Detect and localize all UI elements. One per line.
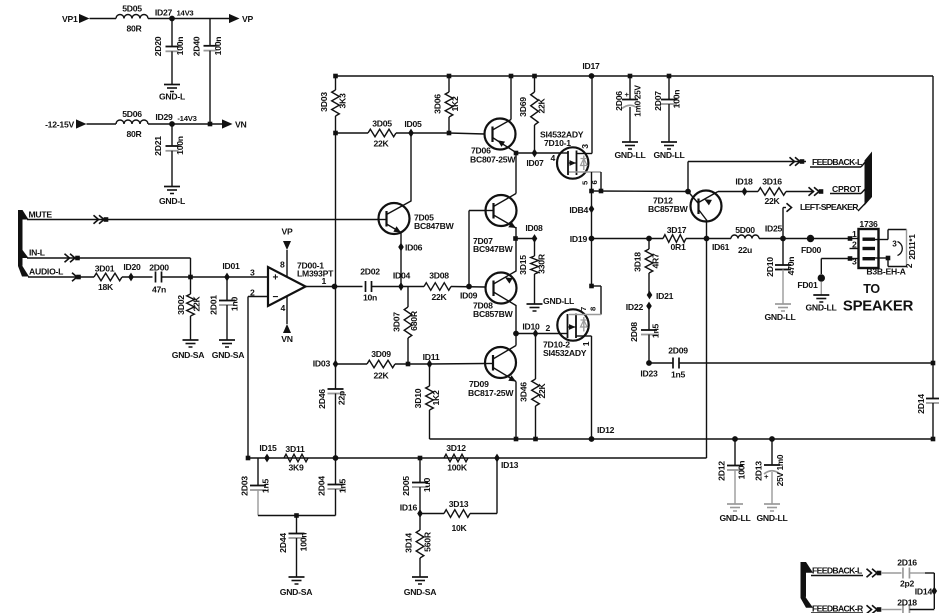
svg-text:GND-LL: GND-LL xyxy=(614,150,645,160)
svg-text:2D09: 2D09 xyxy=(668,346,688,356)
svg-text:FEEDBACK-L: FEEDBACK-L xyxy=(812,566,862,576)
svg-text:ID22: ID22 xyxy=(626,302,644,312)
svg-text:22p: 22p xyxy=(337,391,347,405)
junction pin1 xyxy=(848,236,853,241)
svg-text:2D16: 2D16 xyxy=(897,558,917,568)
svg-text:1736: 1736 xyxy=(859,219,878,229)
ferrite bead FD00 xyxy=(801,235,822,255)
svg-text:ID01: ID01 xyxy=(222,261,240,271)
svg-text:VP: VP xyxy=(281,227,293,237)
svg-text:2D20: 2D20 xyxy=(153,36,163,56)
net LEFT-SPEAKER xyxy=(783,202,867,212)
svg-text:1K2: 1K2 xyxy=(431,390,441,406)
wire left rail xyxy=(335,133,337,364)
node ID09 xyxy=(460,284,478,301)
capacitor 2D01 xyxy=(209,277,240,340)
svg-text:-14V3: -14V3 xyxy=(177,114,196,123)
svg-text:LM393PT: LM393PT xyxy=(297,269,334,279)
output terminal VN xyxy=(222,119,247,129)
svg-text:3D14: 3D14 xyxy=(404,533,414,553)
pin 8 label xyxy=(589,306,598,311)
svg-text:3D06: 3D06 xyxy=(433,94,443,114)
node ID01 xyxy=(222,261,240,281)
junction 2D05/feedback xyxy=(418,456,423,461)
svg-text:100n: 100n xyxy=(213,37,223,56)
svg-text:FD00: FD00 xyxy=(801,245,822,255)
ground GND-LL (2D10) xyxy=(764,304,795,322)
inductor 5D00 xyxy=(731,225,759,255)
pin 7 label xyxy=(579,307,588,311)
svg-text:7: 7 xyxy=(579,307,588,311)
svg-text:ID11: ID11 xyxy=(423,352,440,362)
svg-text:3D69: 3D69 xyxy=(518,97,528,117)
pin 2 stub xyxy=(850,248,859,250)
capacitor 2D09 xyxy=(649,346,688,380)
junction pin2/feedback xyxy=(246,456,251,461)
svg-text:2D21: 2D21 xyxy=(153,136,163,156)
wire right rail top xyxy=(932,76,934,363)
svg-text:2D04: 2D04 xyxy=(317,476,327,496)
net FEEDBACK-L xyxy=(688,157,867,167)
resistor 3D15 xyxy=(518,239,547,305)
resistor 3D46 xyxy=(519,334,548,440)
wire feedback line xyxy=(248,457,707,459)
node ID13 xyxy=(494,454,518,470)
svg-text:ID27: ID27 xyxy=(155,8,173,18)
svg-text:5D06: 5D06 xyxy=(122,109,142,119)
wire 3D13 to ID13 xyxy=(470,458,497,514)
svg-text:2D01: 2D01 xyxy=(209,295,219,315)
chevron on AUDIO-L xyxy=(72,273,81,281)
resistor 3D13 xyxy=(420,499,470,533)
svg-text:2D03: 2D03 xyxy=(240,476,250,496)
svg-text:ID09: ID09 xyxy=(460,291,478,301)
capacitor 2D16 xyxy=(881,558,925,589)
input terminal VP1 xyxy=(62,14,90,24)
svg-text:4R7: 4R7 xyxy=(651,253,661,269)
wire 2D09 line xyxy=(680,362,934,364)
wire 7D08 emitter xyxy=(515,239,517,272)
svg-text:3D05: 3D05 xyxy=(372,119,392,129)
svg-text:ID19: ID19 xyxy=(570,234,588,244)
svg-text:1K2: 1K2 xyxy=(450,96,460,112)
svg-text:LEFT-SPEAKER: LEFT-SPEAKER xyxy=(800,202,859,212)
svg-text:3D01: 3D01 xyxy=(95,264,115,274)
svg-text:3: 3 xyxy=(580,144,590,149)
wire gate line 7D10-1 xyxy=(516,152,561,154)
wire 7D09 collector xyxy=(515,334,517,346)
junction 7D12 base xyxy=(685,189,691,195)
svg-text:GND-LL: GND-LL xyxy=(653,150,684,160)
svg-text:VP1: VP1 xyxy=(62,14,78,24)
wire ID08 xyxy=(516,238,535,240)
node ID61 xyxy=(704,236,730,252)
wire 7D10-2 drain xyxy=(576,336,592,439)
wire 7D12 emitter to ID18 xyxy=(718,191,758,193)
svg-text:3D07: 3D07 xyxy=(392,312,402,332)
resistor 3D05 xyxy=(368,119,396,149)
svg-text:ID23: ID23 xyxy=(640,369,658,379)
svg-text:GND-LL: GND-LL xyxy=(764,312,795,322)
junction 2D44 top xyxy=(294,513,299,518)
svg-text:3: 3 xyxy=(250,268,255,278)
wire source bus to 7D12 base xyxy=(592,190,689,193)
transistor Q 7D12 BC857BW xyxy=(648,191,722,222)
svg-text:100n: 100n xyxy=(737,461,747,480)
wire IN-L xyxy=(27,258,191,277)
mosfet U 7D10-1 SI4532ADY xyxy=(540,130,588,179)
svg-text:1n5: 1n5 xyxy=(338,478,348,493)
jog to 7D10-2 source xyxy=(589,284,601,315)
ground GND-LL (3D15) xyxy=(527,296,575,311)
svg-text:25V 1m0: 25V 1m0 xyxy=(776,454,785,486)
wire to 7D06 base xyxy=(449,133,485,134)
junction ID10 line/collectors xyxy=(513,331,519,337)
svg-text:3: 3 xyxy=(892,240,897,249)
node ID12 xyxy=(589,425,615,442)
resistor 3D01 xyxy=(94,264,122,293)
node ID22 xyxy=(626,302,652,312)
svg-text:GND-SA: GND-SA xyxy=(404,587,437,597)
svg-text:2D46: 2D46 xyxy=(317,389,327,409)
wire 2D02 to 3D08 xyxy=(372,286,425,288)
svg-text:BC857BW: BC857BW xyxy=(473,309,514,319)
node ID11 xyxy=(423,352,440,368)
svg-text:560R: 560R xyxy=(423,531,433,552)
junction 3D18 top xyxy=(646,236,652,242)
node ID25 xyxy=(765,224,786,242)
transistor Q 7D06 BC807-25W xyxy=(470,119,516,165)
wire pin2 feedback xyxy=(248,297,268,459)
junction source bus xyxy=(589,189,603,194)
junction 2D12 top xyxy=(732,436,738,442)
wire op-amp output xyxy=(306,286,363,288)
svg-text:SPEAKER: SPEAKER xyxy=(843,299,914,315)
svg-text:ID06: ID06 xyxy=(405,243,423,253)
wire 7D06 collector to rail xyxy=(509,74,514,120)
capacitor 2D07 xyxy=(653,76,682,142)
net AUDIO-L xyxy=(29,267,63,277)
svg-text:2: 2 xyxy=(545,323,550,333)
svg-text:680R: 680R xyxy=(409,310,419,331)
svg-text:2: 2 xyxy=(905,263,914,268)
pin 3 label xyxy=(250,268,255,278)
svg-text:2D11*1: 2D11*1 xyxy=(908,234,917,260)
svg-text:ID21: ID21 xyxy=(656,291,674,301)
pin 3 label connector xyxy=(852,257,857,267)
svg-text:100n: 100n xyxy=(175,136,185,155)
resistor 3D02 xyxy=(176,277,202,340)
wire 2D03-2D04 bottom xyxy=(258,515,336,517)
pin 8 label xyxy=(280,260,285,270)
ground GND-L (2D20) xyxy=(159,85,185,102)
node ID08 xyxy=(525,223,543,243)
svg-text:22u: 22u xyxy=(738,245,752,255)
node ID14 xyxy=(915,587,937,597)
svg-text:BC807-25W: BC807-25W xyxy=(470,155,516,165)
wire 7D07 collector xyxy=(515,153,517,194)
svg-text:10n: 10n xyxy=(363,293,377,303)
svg-text:8: 8 xyxy=(280,260,285,270)
svg-text:3D12: 3D12 xyxy=(446,443,466,453)
svg-text:22K: 22K xyxy=(373,139,389,149)
svg-text:1: 1 xyxy=(852,229,857,239)
svg-text:3D02: 3D02 xyxy=(176,295,186,315)
svg-text:GND-LL: GND-LL xyxy=(805,303,836,313)
capacitor 2D06 xyxy=(614,76,643,142)
wire 7D10-1 drain xyxy=(577,76,593,154)
resistor 3D08 xyxy=(424,271,451,303)
ground GND-LL (FD01) xyxy=(805,282,836,313)
pin 4 label xyxy=(281,303,286,313)
svg-text:1: 1 xyxy=(581,341,591,346)
resistor 3D16 xyxy=(758,177,786,207)
svg-text:BC947BW: BC947BW xyxy=(473,244,514,254)
chevrons on IN-L xyxy=(65,254,80,262)
svg-text:3D17: 3D17 xyxy=(667,225,687,235)
wire base to FEEDBACK-L xyxy=(687,162,689,192)
resistor 3D17 xyxy=(663,225,687,252)
capacitor 2D13 xyxy=(754,439,786,504)
svg-text:GND-SA: GND-SA xyxy=(280,587,313,597)
svg-text:3D03: 3D03 xyxy=(319,92,329,112)
svg-text:ID17: ID17 xyxy=(582,61,600,71)
svg-text:ID14: ID14 xyxy=(915,587,933,597)
svg-text:2D00: 2D00 xyxy=(149,263,169,273)
node ID10 xyxy=(522,322,540,338)
svg-text:ID29: ID29 xyxy=(155,112,173,122)
svg-text:1u0: 1u0 xyxy=(422,477,432,492)
wire AUDIO-L xyxy=(28,276,94,278)
svg-text:14V3: 14V3 xyxy=(177,9,194,18)
svg-text:18K: 18K xyxy=(98,282,114,292)
wire MUTE xyxy=(27,219,379,221)
svg-text:7D10-1: 7D10-1 xyxy=(544,138,571,148)
node ID20 xyxy=(123,262,141,281)
svg-text:3K3: 3K3 xyxy=(338,93,348,109)
wire 3D16 to CPROT xyxy=(786,191,814,193)
svg-text:2D06: 2D06 xyxy=(614,91,624,111)
capacitor 2D03 xyxy=(240,458,271,516)
capacitor 2D12 xyxy=(717,439,747,504)
junction 3D03/3D05 xyxy=(333,131,338,136)
capacitor 2D00 xyxy=(149,263,169,295)
svg-text:3D18: 3D18 xyxy=(633,252,643,272)
wire ID12 rail xyxy=(430,438,934,440)
capacitor 2D05 xyxy=(401,458,432,514)
capacitor 2D02 xyxy=(360,267,380,303)
junction right rail/2D09 xyxy=(931,361,936,366)
svg-text:1n0: 1n0 xyxy=(230,296,240,311)
capacitor 2D18 xyxy=(881,598,934,613)
svg-text:22K: 22K xyxy=(764,196,780,206)
wire 3D09 to ID11 xyxy=(395,363,430,365)
wire 5D05 to VP xyxy=(148,18,229,20)
net CPROT xyxy=(809,184,867,196)
input connector bar xyxy=(18,210,29,277)
junction 2D46/feedback xyxy=(333,455,339,461)
junction ID08 xyxy=(513,236,518,241)
svg-text:GND-SA: GND-SA xyxy=(172,350,205,360)
node IDB4 xyxy=(569,205,594,215)
wire 3D17 to 5D00 xyxy=(686,238,731,240)
svg-text:0R1: 0R1 xyxy=(670,242,686,252)
capacitor 2D14 xyxy=(916,363,939,439)
svg-text:ID03: ID03 xyxy=(313,359,331,369)
junction rail/3D03 xyxy=(333,74,338,79)
node ID03 xyxy=(313,359,339,369)
svg-text:5D00: 5D00 xyxy=(735,225,755,235)
svg-text:1n5: 1n5 xyxy=(651,323,661,338)
svg-text:GND-L: GND-L xyxy=(159,196,185,206)
junction IN-L/AUDIO-L xyxy=(188,275,193,280)
pin 2 label 7D10-2 xyxy=(545,323,550,333)
wire 2D00 to ID01 xyxy=(162,276,268,278)
svg-text:2D10: 2D10 xyxy=(765,257,775,277)
junction rail/3D69 xyxy=(532,74,537,79)
resistor 3D12 xyxy=(444,443,468,473)
wire -12-15V to L2 xyxy=(87,123,117,125)
ground GND-LL (2D07) xyxy=(653,142,684,160)
feedback connector bar xyxy=(801,562,814,608)
wire 3D05 to 3D06 xyxy=(396,132,449,134)
ground GND-SA (3D14) xyxy=(404,577,437,597)
svg-text:VP: VP xyxy=(242,14,254,24)
net FEEDBACK-L (bottom) xyxy=(811,566,863,576)
input terminal -12-15V xyxy=(45,119,86,129)
svg-text:3D09: 3D09 xyxy=(371,349,391,359)
svg-text:3D13: 3D13 xyxy=(449,499,469,509)
svg-text:2D14: 2D14 xyxy=(916,394,926,414)
resistor 3D10 xyxy=(413,364,441,439)
pin 6 label xyxy=(590,180,599,184)
net FEEDBACK-R xyxy=(811,604,864,613)
junction 3D06 bottom xyxy=(447,131,452,136)
inductor 5D05 xyxy=(116,4,148,34)
transistor Q 7D08 BC857BW xyxy=(473,271,517,319)
pin 1 label connector xyxy=(852,229,857,239)
wire 2D16 to ID14 xyxy=(925,573,934,609)
wire ID11 to 7D09 base xyxy=(430,363,486,366)
svg-text:100n: 100n xyxy=(672,90,682,109)
svg-text:B3B-EH-A: B3B-EH-A xyxy=(866,267,905,277)
junction right rail/ID12 xyxy=(931,437,936,442)
svg-text:3D11: 3D11 xyxy=(285,444,305,454)
power VN at op-amp xyxy=(281,297,293,345)
svg-text:22K: 22K xyxy=(537,97,547,113)
capacitor 2D10 xyxy=(765,239,796,305)
svg-text:+: + xyxy=(273,273,279,284)
svg-text:FEEDBACK-R: FEEDBACK-R xyxy=(812,604,864,613)
svg-text:3D16: 3D16 xyxy=(762,177,782,187)
svg-text:4: 4 xyxy=(551,153,556,163)
svg-text:AUDIO-L: AUDIO-L xyxy=(29,267,63,277)
svg-text:GND-LL: GND-LL xyxy=(543,296,574,306)
svg-text:80R: 80R xyxy=(126,129,142,139)
wire ID09 to 7D07 base xyxy=(469,211,486,287)
node ID19 xyxy=(570,234,595,244)
wire pin3 xyxy=(848,256,859,261)
wire 3D03 to 3D05 xyxy=(336,132,369,134)
chevrons on MUTE xyxy=(94,215,109,223)
wire ID25 to FD00 xyxy=(783,238,848,240)
svg-text:GND-LL: GND-LL xyxy=(719,513,750,523)
capacitor 2D46 xyxy=(317,364,347,458)
wire 5D06 to VN xyxy=(148,123,222,125)
node ID06 xyxy=(398,243,422,253)
node ID04 xyxy=(393,271,411,291)
junction 2D13 top xyxy=(769,436,775,442)
svg-text:-12-15V: -12-15V xyxy=(45,120,74,130)
svg-text:10K: 10K xyxy=(451,523,467,533)
resistor 3D69 xyxy=(518,76,547,153)
junction rail/3D06 xyxy=(447,74,452,79)
node ID05 xyxy=(404,119,422,137)
node ID29 xyxy=(155,112,196,127)
capacitor 2D11*1 xyxy=(875,230,917,269)
net IN-L xyxy=(29,248,45,258)
svg-text:VN: VN xyxy=(281,334,293,344)
capacitor 2D21 xyxy=(153,124,185,187)
wire 3D01 to 2D00 xyxy=(122,276,153,278)
svg-text:ID10: ID10 xyxy=(522,322,540,332)
capacitor 2D20 xyxy=(153,19,185,85)
wire 5D00 to ID25 xyxy=(759,238,783,240)
svg-text:330R: 330R xyxy=(537,253,547,274)
pin 5 label xyxy=(581,180,590,185)
svg-text:ID15: ID15 xyxy=(259,443,277,453)
svg-text:3D08: 3D08 xyxy=(429,271,449,281)
junction output/rail xyxy=(332,284,338,290)
svg-text:100n: 100n xyxy=(175,37,185,56)
ground GND-SA (2D01) xyxy=(212,340,245,360)
wire 7D10-1 source xyxy=(569,172,601,191)
capacitor 2D08 xyxy=(629,306,661,363)
svg-text:3D10: 3D10 xyxy=(413,388,423,408)
pin 4 label 7D10-1 xyxy=(551,153,556,163)
pin 2 label xyxy=(250,288,255,298)
op-amp U 7D00-1 LM393PT xyxy=(268,261,334,307)
pin 3 label 7D10-1 xyxy=(580,144,590,149)
power VP at op-amp xyxy=(281,227,293,278)
ground GND-LL (2D13) xyxy=(756,504,787,523)
svg-text:IN-L: IN-L xyxy=(29,248,45,258)
resistor 3D03 xyxy=(319,76,348,133)
svg-text:2D08: 2D08 xyxy=(629,322,639,342)
junction 3D46/ID12 rail xyxy=(533,437,538,442)
svg-text:BC857BW: BC857BW xyxy=(648,204,689,214)
svg-text:4: 4 xyxy=(281,303,286,313)
node ID15 xyxy=(259,443,277,462)
svg-text:ID05: ID05 xyxy=(404,119,422,129)
svg-text:22K: 22K xyxy=(431,292,447,302)
svg-text:FD01: FD01 xyxy=(797,280,818,290)
resistor 3D14 xyxy=(404,514,433,578)
resistor 3D11 xyxy=(284,444,308,473)
svg-text:ID16: ID16 xyxy=(400,503,418,513)
node ID23 xyxy=(640,360,658,378)
svg-text:100K: 100K xyxy=(447,463,468,473)
ground GND-LL (2D12) xyxy=(719,504,750,523)
connector J 1736 B3B-EH-A xyxy=(859,219,906,277)
ground GND-SA (3D02) xyxy=(172,340,205,360)
junction 7D09 emitter/ID12 rail xyxy=(514,437,519,442)
node ID16 xyxy=(400,503,423,518)
wire LEFT-SPEAKER to ID25 xyxy=(782,208,784,239)
svg-text:BC817-25W: BC817-25W xyxy=(468,388,514,398)
ground GND-SA (2D44) xyxy=(280,577,313,597)
svg-text:100n: 100n xyxy=(299,533,309,552)
